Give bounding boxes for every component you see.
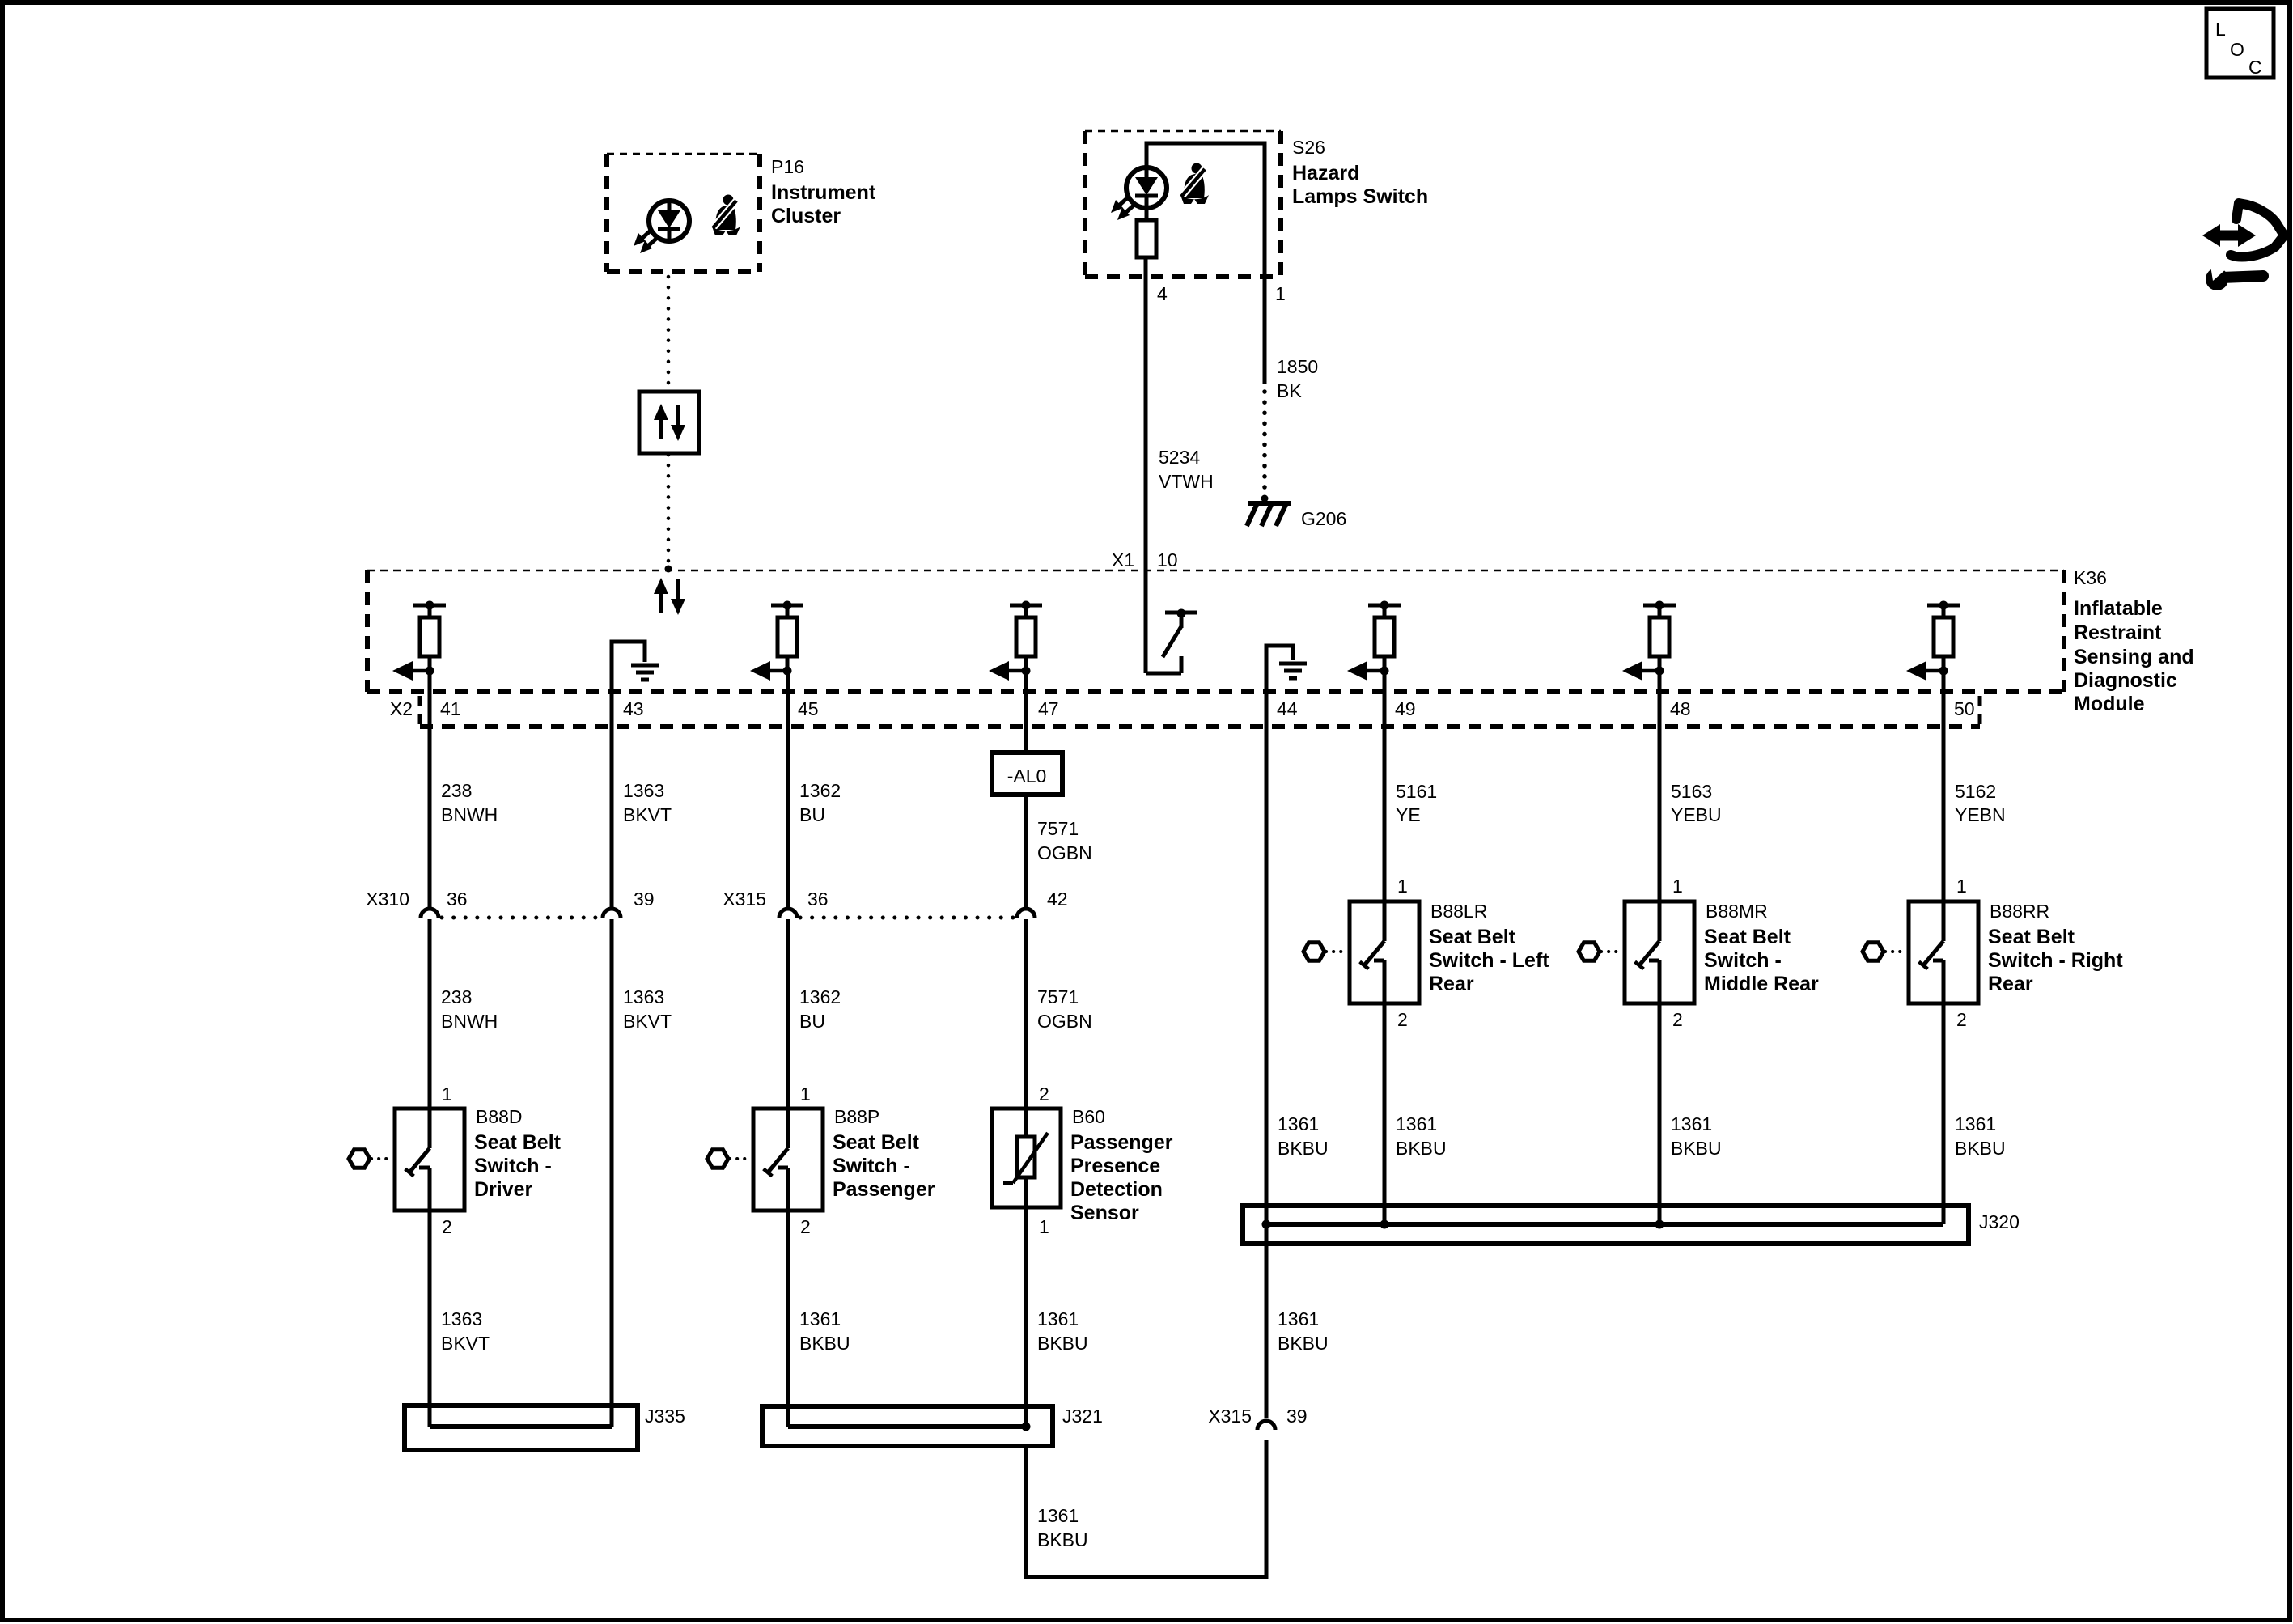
- svg-text:YE: YE: [1396, 804, 1421, 825]
- svg-text:Switch -: Switch -: [1704, 949, 1782, 972]
- serial data wire (dotted) lower: [667, 455, 671, 563]
- S26 wire LED to resistor: [1145, 208, 1149, 220]
- B60 label block: [1070, 1106, 1173, 1224]
- connector X310 pin36 arc: [421, 909, 439, 918]
- B88LR bolt hexagon: [1303, 943, 1325, 961]
- svg-text:1361: 1361: [1955, 1113, 1996, 1134]
- label 1850 BK: [1277, 356, 1318, 401]
- svg-text:1363: 1363: [623, 780, 664, 801]
- label 1361 BKBU below J321: [1037, 1505, 1088, 1550]
- svg-text:1361: 1361: [1037, 1505, 1079, 1526]
- svg-text:X2: X2: [390, 698, 413, 719]
- svg-text:5163: 5163: [1671, 781, 1712, 802]
- junction trunk at J320: [1262, 1220, 1271, 1229]
- svg-text:1: 1: [1672, 876, 1683, 897]
- J335 internal bus: [430, 1424, 612, 1429]
- svg-text:YEBU: YEBU: [1671, 804, 1722, 825]
- wire 1361 BKBU trunk: [1265, 692, 1269, 1224]
- internal ground at pin 43: [612, 642, 659, 692]
- serial data symbol (boxed arrows): [639, 392, 699, 453]
- svg-text:Seat Belt: Seat Belt: [474, 1131, 562, 1154]
- svg-text:Passenger: Passenger: [1070, 1131, 1173, 1154]
- label 1361 BKBU (passenger): [799, 1308, 850, 1354]
- svg-text:1: 1: [1275, 283, 1286, 304]
- svg-text:238: 238: [441, 780, 472, 801]
- resistor in S26: [1137, 220, 1156, 257]
- svg-text:50: 50: [1954, 698, 1975, 719]
- svg-text:X1: X1: [1112, 549, 1134, 570]
- svg-text:1362: 1362: [799, 780, 841, 801]
- svg-text:1361: 1361: [799, 1308, 841, 1329]
- wire 5234 VTWH: [1144, 257, 1148, 570]
- label 1362 BU: [799, 780, 841, 825]
- svg-text:BNWH: BNWH: [441, 804, 498, 825]
- internal ground at pin 44: [1266, 646, 1307, 692]
- svg-text:Middle Rear: Middle Rear: [1704, 973, 1819, 995]
- seat belt switch B88P box: [753, 1109, 823, 1211]
- seat belt switch B88RR box: [1909, 901, 1978, 1003]
- wire 1363 BKVT (driver): [428, 1211, 432, 1427]
- pull-up resistor at pin 45 in K36: [750, 601, 803, 681]
- svg-text:2: 2: [1397, 1009, 1408, 1030]
- wire 1361 BKBU (passenger): [786, 1211, 790, 1427]
- pull-up resistor at pin 49 in K36: [1347, 601, 1401, 681]
- instrument cluster P16 box: [607, 154, 760, 272]
- S26 internal top wire: [1146, 143, 1265, 277]
- svg-text:36: 36: [447, 888, 468, 910]
- svg-text:Instrument: Instrument: [771, 181, 876, 204]
- svg-text:Presence: Presence: [1070, 1155, 1160, 1177]
- svg-text:Switch - Left: Switch - Left: [1429, 949, 1549, 972]
- B88MR label block: [1704, 901, 1819, 995]
- svg-text:1361: 1361: [1396, 1113, 1437, 1134]
- B88D switch contacts: [405, 1109, 430, 1211]
- svg-text:OGBN: OGBN: [1037, 1011, 1092, 1032]
- svg-text:48: 48: [1670, 698, 1691, 719]
- svg-text:L: L: [2215, 19, 2226, 40]
- svg-text:B88D: B88D: [476, 1106, 523, 1127]
- svg-text:1363: 1363: [441, 1308, 482, 1329]
- junction at J321: [1022, 1423, 1031, 1431]
- svg-text:X310: X310: [366, 888, 409, 910]
- svg-text:B88LR: B88LR: [1430, 901, 1487, 922]
- X315 dotted bridge: [800, 916, 1015, 920]
- svg-text:39: 39: [634, 888, 655, 910]
- dotted ground lead: [1262, 392, 1267, 492]
- wire 1361 BKBU (RR): [1942, 1003, 1946, 1224]
- svg-text:J335: J335: [645, 1406, 685, 1427]
- svg-text:1361: 1361: [1278, 1113, 1319, 1134]
- svg-text:BK: BK: [1277, 380, 1302, 401]
- wire 1363 BKVT upper: [610, 692, 614, 908]
- B88P bolt hexagon: [707, 1150, 728, 1168]
- wire 1362 BU upper: [786, 671, 790, 908]
- B88D bolt dotted link: [371, 1157, 393, 1160]
- B88MR bolt dotted link: [1601, 950, 1623, 953]
- pull-up resistor at pin 50 in K36: [1906, 601, 1960, 681]
- svg-text:2: 2: [1672, 1009, 1683, 1030]
- svg-text:2: 2: [442, 1216, 452, 1237]
- svg-text:BKBU: BKBU: [1955, 1138, 2006, 1159]
- wire trunk J320 to X315: [1265, 1224, 1269, 1418]
- svg-text:BKVT: BKVT: [441, 1333, 490, 1354]
- option box -AL0: [992, 753, 1062, 795]
- label 5162 YEBN: [1955, 781, 2006, 825]
- seat belt switch B88D box: [395, 1109, 464, 1211]
- svg-text:G206: G206: [1301, 508, 1346, 529]
- J320 internal bus: [1266, 1222, 1943, 1227]
- wire 1850 BK: [1263, 257, 1267, 384]
- pull-up resistor at pin 48 in K36: [1622, 601, 1676, 681]
- svg-text:B88RR: B88RR: [1990, 901, 2049, 922]
- svg-text:41: 41: [440, 698, 461, 719]
- svg-text:2: 2: [1039, 1083, 1049, 1105]
- wire 1362 BU lower: [786, 919, 790, 1109]
- svg-text:BU: BU: [799, 804, 825, 825]
- svg-text:7571: 7571: [1037, 986, 1079, 1007]
- svg-text:1: 1: [1956, 876, 1967, 897]
- svg-text:S26: S26: [1292, 137, 1325, 158]
- svg-text:Sensing and: Sensing and: [2074, 646, 2194, 668]
- label 1363 BKVT lower: [623, 986, 672, 1032]
- connector X315 pin36 arc: [779, 909, 797, 918]
- LOC reference box: [2206, 9, 2274, 78]
- B88MR switch contacts: [1635, 901, 1659, 1003]
- svg-text:1: 1: [1397, 876, 1408, 897]
- B88MR bolt hexagon: [1579, 943, 1600, 961]
- label 7571 OGBN: [1037, 818, 1092, 863]
- wire 5163 YEBU: [1658, 671, 1662, 901]
- B88RR switch contacts: [1919, 901, 1943, 1003]
- svg-text:Rear: Rear: [1988, 973, 2033, 995]
- B60 thermistor symbol: [1003, 1133, 1048, 1183]
- P16 label: [771, 156, 876, 227]
- svg-text:Seat Belt: Seat Belt: [1988, 926, 2075, 948]
- svg-text:238: 238: [441, 986, 472, 1007]
- pull-up resistor at pin 41 in K36: [392, 601, 446, 681]
- J321 internal bus: [788, 1424, 1026, 1429]
- svg-text:BKVT: BKVT: [623, 1011, 672, 1032]
- label 238 BNWH: [441, 780, 498, 825]
- svg-text:2: 2: [1956, 1009, 1967, 1030]
- svg-text:X315: X315: [1208, 1406, 1252, 1427]
- wire 1361 BKBU (LR): [1383, 1003, 1387, 1224]
- svg-text:2: 2: [800, 1216, 811, 1237]
- svg-text:Switch -: Switch -: [474, 1155, 552, 1177]
- wire 238 BNWH lower: [428, 919, 432, 1109]
- node at G206: [1261, 495, 1269, 502]
- svg-text:1361: 1361: [1037, 1308, 1079, 1329]
- B88D label block: [474, 1106, 562, 1201]
- svg-text:36: 36: [807, 888, 829, 910]
- wire 5161 YE: [1383, 671, 1387, 901]
- service icon: double arrow: [2202, 224, 2256, 247]
- wire 238 BNWH upper: [428, 671, 432, 908]
- wire 7571 OGBN upper: [1024, 795, 1028, 908]
- label 1363 BKVT upper: [623, 780, 672, 825]
- svg-text:42: 42: [1047, 888, 1068, 910]
- pull-up resistor at pin 47 in K36: [989, 601, 1042, 681]
- label 1361 BKBU (RR): [1955, 1113, 2006, 1159]
- svg-text:1361: 1361: [1278, 1308, 1319, 1329]
- B88P label block: [833, 1106, 935, 1201]
- S26 label: [1292, 137, 1428, 208]
- svg-text:Seat Belt: Seat Belt: [1429, 926, 1516, 948]
- label 7571 OGBN 2: [1037, 986, 1092, 1032]
- svg-text:1361: 1361: [1671, 1113, 1712, 1134]
- service icon: routing arrow: [2231, 203, 2284, 257]
- P16 indicator LED: [634, 201, 689, 253]
- K36 internal switch (seat belt indicator driver): [1146, 570, 1197, 673]
- wire 7571 OGBN lower: [1024, 919, 1028, 1137]
- B88LR label block: [1429, 901, 1549, 995]
- svg-text:Hazard: Hazard: [1292, 162, 1359, 184]
- svg-text:Switch - Right: Switch - Right: [1988, 949, 2123, 972]
- svg-text:Lamps Switch: Lamps Switch: [1292, 185, 1428, 208]
- splice pack J335: [405, 1406, 638, 1450]
- label 1361 BKBU (B60): [1037, 1308, 1088, 1354]
- connector X310 pin39 arc: [603, 909, 621, 918]
- svg-text:BKVT: BKVT: [623, 804, 672, 825]
- ground G206 symbol: [1247, 503, 1291, 526]
- svg-text:Driver: Driver: [474, 1178, 533, 1201]
- svg-text:OGBN: OGBN: [1037, 842, 1092, 863]
- svg-text:Rear: Rear: [1429, 973, 1474, 995]
- service icon: wrench: [2206, 261, 2263, 290]
- B88D bolt hexagon: [349, 1150, 370, 1168]
- svg-text:Inflatable: Inflatable: [2074, 597, 2163, 620]
- wire 1361 BKBU below J321: [1026, 1440, 1266, 1577]
- svg-text:7571: 7571: [1037, 818, 1079, 839]
- svg-text:Diagnostic: Diagnostic: [2074, 669, 2177, 692]
- svg-text:Switch -: Switch -: [833, 1155, 910, 1177]
- passenger presence sensor B60 box: [992, 1109, 1061, 1207]
- label 1362 BU 2: [799, 986, 841, 1032]
- wire 1361 BKBU (MR): [1658, 1003, 1662, 1224]
- svg-text:44: 44: [1277, 698, 1298, 719]
- svg-text:BKBU: BKBU: [1278, 1333, 1329, 1354]
- K36 serial data arrows: [654, 578, 685, 615]
- label 5163 YEBU: [1671, 781, 1722, 825]
- B88RR bolt hexagon: [1863, 943, 1884, 961]
- label 1361 BKBU trunk upper: [1278, 1113, 1329, 1159]
- label 1361 BKBU (MR): [1671, 1113, 1722, 1159]
- svg-text:5162: 5162: [1955, 781, 1996, 802]
- serial data wire (dotted) upper: [667, 277, 671, 390]
- S26 seat belt icon: [1180, 163, 1209, 205]
- svg-text:10: 10: [1157, 549, 1178, 570]
- svg-text:B88MR: B88MR: [1706, 901, 1768, 922]
- svg-text:5161: 5161: [1396, 781, 1437, 802]
- svg-text:45: 45: [798, 698, 819, 719]
- B88LR switch contacts: [1360, 901, 1384, 1003]
- svg-text:1: 1: [1039, 1216, 1049, 1237]
- node: data link at K36 edge: [665, 566, 672, 573]
- svg-text:Module: Module: [2074, 693, 2145, 715]
- label 1361 BKBU (LR): [1396, 1113, 1447, 1159]
- svg-text:BKBU: BKBU: [1671, 1138, 1722, 1159]
- svg-text:Passenger: Passenger: [833, 1178, 935, 1201]
- seat belt switch B88LR box: [1350, 901, 1419, 1003]
- svg-text:47: 47: [1038, 698, 1059, 719]
- svg-text:Detection: Detection: [1070, 1178, 1163, 1201]
- label 238 BNWH 2: [441, 986, 498, 1032]
- svg-text:BKBU: BKBU: [799, 1333, 850, 1354]
- svg-text:1850: 1850: [1277, 356, 1318, 377]
- svg-text:1: 1: [800, 1083, 811, 1105]
- svg-text:Sensor: Sensor: [1070, 1202, 1139, 1224]
- splice pack J321: [762, 1406, 1053, 1446]
- label 5234 VTWH: [1159, 447, 1214, 492]
- junction LR at J320: [1380, 1220, 1389, 1229]
- splice pack J320: [1243, 1206, 1969, 1244]
- svg-text:B88P: B88P: [834, 1106, 879, 1127]
- svg-text:J321: J321: [1062, 1406, 1103, 1427]
- S26 indicator LED: [1111, 167, 1167, 220]
- svg-text:X315: X315: [723, 888, 766, 910]
- B88RR label block: [1988, 901, 2123, 995]
- connector X315 pin42 arc: [1017, 909, 1035, 918]
- svg-text:BNWH: BNWH: [441, 1011, 498, 1032]
- svg-text:BKBU: BKBU: [1037, 1333, 1088, 1354]
- svg-text:Cluster: Cluster: [771, 205, 841, 227]
- B88RR bolt dotted link: [1885, 950, 1907, 953]
- label 1363 BKVT: [441, 1308, 490, 1354]
- seat belt switch B88MR box: [1625, 901, 1694, 1003]
- svg-text:YEBN: YEBN: [1955, 804, 2006, 825]
- svg-text:P16: P16: [771, 156, 804, 177]
- junction MR at J320: [1655, 1220, 1664, 1229]
- label 5161 YE: [1396, 781, 1437, 825]
- svg-text:-AL0: -AL0: [1007, 765, 1047, 787]
- svg-text:Restraint: Restraint: [2074, 621, 2162, 644]
- svg-text:BU: BU: [799, 1011, 825, 1032]
- K36 module box: [367, 570, 2064, 692]
- svg-text:VTWH: VTWH: [1159, 471, 1214, 492]
- connector X315 pin39 arc (bottom): [1257, 1421, 1275, 1430]
- wire 1361 BKBU (B60): [1024, 1177, 1028, 1427]
- hazard lamps switch S26 box: [1085, 131, 1281, 277]
- svg-text:BKBU: BKBU: [1396, 1138, 1447, 1159]
- svg-text:B60: B60: [1072, 1106, 1105, 1127]
- svg-text:K36: K36: [2074, 567, 2107, 588]
- svg-text:O: O: [2230, 39, 2244, 60]
- svg-text:BKBU: BKBU: [1037, 1529, 1088, 1550]
- svg-text:43: 43: [623, 698, 644, 719]
- svg-text:1: 1: [442, 1083, 452, 1105]
- wire 1363 BKVT lower: [610, 919, 614, 1427]
- svg-text:C: C: [2248, 57, 2262, 78]
- svg-text:1363: 1363: [623, 986, 664, 1007]
- svg-text:BKBU: BKBU: [1278, 1138, 1329, 1159]
- B88P switch contacts: [764, 1109, 788, 1211]
- svg-text:4: 4: [1157, 283, 1168, 304]
- B88LR bolt dotted link: [1326, 950, 1348, 953]
- X310 dotted bridge: [442, 916, 600, 920]
- svg-text:5234: 5234: [1159, 447, 1200, 468]
- svg-text:J320: J320: [1979, 1211, 2020, 1232]
- wire 5162 YEBN: [1942, 671, 1946, 901]
- wire at pin 47: [1024, 671, 1028, 753]
- svg-text:39: 39: [1286, 1406, 1308, 1427]
- svg-text:Seat Belt: Seat Belt: [833, 1131, 920, 1154]
- connector X2 strip: [420, 696, 1980, 727]
- P16 seat belt telltale icon: [712, 195, 740, 236]
- svg-text:Seat Belt: Seat Belt: [1704, 926, 1791, 948]
- K36 label block: [2074, 567, 2194, 715]
- B88P bolt dotted link: [730, 1157, 752, 1160]
- svg-text:1362: 1362: [799, 986, 841, 1007]
- svg-text:49: 49: [1395, 698, 1416, 719]
- label 1361 BKBU trunk lower: [1278, 1308, 1329, 1354]
